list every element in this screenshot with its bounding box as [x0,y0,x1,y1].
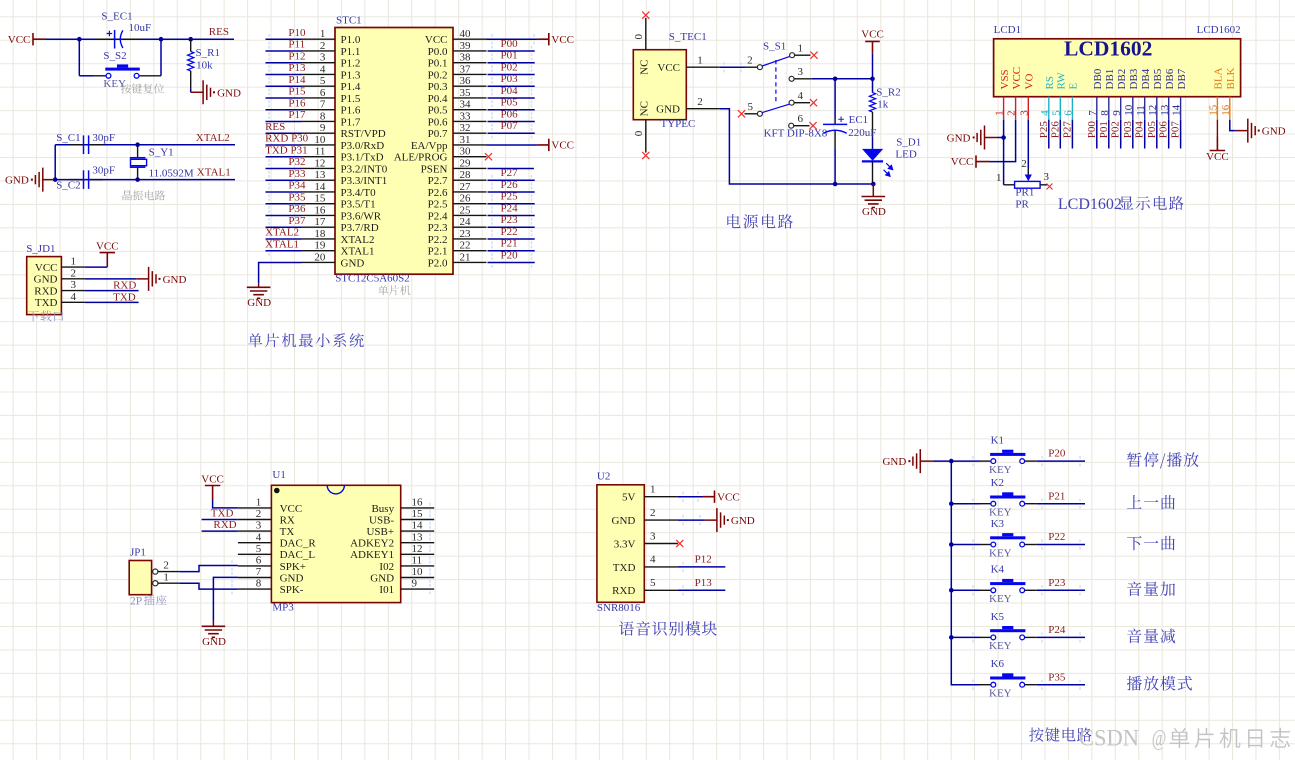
JP1 pin 1 wire to SPK- [158,582,179,584]
svg-text:38: 38 [460,52,472,64]
svg-text:15: 15 [1208,104,1220,116]
power ground (U1) [202,626,226,637]
wire net P26 [488,191,535,193]
S_JD1 pin3 wire RXD [61,290,85,292]
svg-text:P1.6: P1.6 [341,105,361,117]
svg-text:1: 1 [697,55,703,67]
svg-text:P27: P27 [1061,121,1073,139]
svg-text:P0.1: P0.1 [428,58,448,70]
svg-text:E: E [1068,83,1080,90]
svg-text:DB0: DB0 [1092,68,1104,89]
svg-text:10k: 10k [196,59,213,71]
svg-text:P14: P14 [288,74,306,86]
svg-text:P24: P24 [501,202,519,214]
svg-text:XTAL2: XTAL2 [196,132,230,144]
junction (K3) [949,542,954,547]
svg-text:11: 11 [315,146,326,158]
svg-text:P0.7: P0.7 [428,128,448,140]
power port GND (crystal) [35,168,55,192]
svg-text:P1.4: P1.4 [341,81,361,93]
caption 按键复位 [121,84,164,94]
svg-text:DB6: DB6 [1164,68,1176,89]
wire net P16 [266,109,302,111]
STC1 pin 33 (P0.6) [453,120,487,122]
svg-text:1k: 1k [877,99,889,111]
key K5 [951,636,979,638]
svg-text:LED: LED [895,149,916,161]
svg-text:K5: K5 [991,611,1005,623]
svg-text:P2.1: P2.1 [428,246,448,258]
STC1 pin 14 (P3.4/T0) [302,191,336,193]
svg-text:7: 7 [1087,110,1099,116]
svg-text:XTAL1: XTAL1 [265,238,299,250]
svg-text:5: 5 [650,577,656,589]
STC1 pin 10 (P3.0/RxD) [302,144,336,146]
power port VCC (reset circuit) [33,33,46,45]
svg-text:16: 16 [314,204,326,216]
svg-text:LCD1602: LCD1602 [1058,196,1122,213]
wire net P07 [488,132,535,134]
svg-text:P35: P35 [288,191,306,203]
svg-text:30pF: 30pF [92,132,115,144]
power port VCC (U1) [205,486,220,500]
caption 电源电路 [727,214,793,229]
wire net P06 [1168,120,1170,149]
svg-text:P21: P21 [1048,490,1065,502]
crystal S_Y1 11.0592M [137,145,139,158]
svg-text:3: 3 [1018,110,1030,116]
STC1 pin 7 (P1.6) [302,109,336,111]
STC1 pin 15 (P3.5/T1) [302,203,336,205]
svg-text:2: 2 [71,267,77,279]
svg-text:1: 1 [994,110,1006,116]
svg-text:35: 35 [460,87,472,99]
svg-text:16: 16 [412,497,424,509]
resistor S_R1 10k [190,39,192,51]
U1 pin 15 (USB-) [401,519,435,521]
svg-text:EA/Vpp: EA/Vpp [411,140,448,152]
svg-text:P01: P01 [1098,121,1110,138]
STC1 pin 31 (EA/Vpp) [453,144,487,146]
connector JP1 [129,561,151,595]
STC1 pin 29 (PSEN) [453,167,487,169]
wire net P27 [488,179,535,181]
svg-text:3.3V: 3.3V [614,538,636,550]
wire VCC to RES [46,38,234,40]
svg-text:I01: I01 [379,584,394,596]
svg-text:P23: P23 [1048,577,1066,589]
svg-text:P35: P35 [1048,671,1066,683]
svg-text:TXD: TXD [35,297,58,309]
svg-text:P2.6: P2.6 [428,187,448,199]
svg-text:P1.5: P1.5 [341,93,361,105]
wire net P15 [266,97,302,99]
svg-text:P34: P34 [288,180,306,192]
svg-text:30pF: 30pF [92,164,115,176]
svg-text:3: 3 [71,279,77,291]
svg-text:BLA: BLA [1213,67,1225,89]
LCD1 pin 15 (BLA) [1216,97,1218,120]
svg-text:220uF: 220uF [848,127,876,139]
resistor S_R2 1k [872,79,874,93]
U1 pin 7 (GND) [238,577,272,579]
svg-text:RXD: RXD [34,285,57,297]
svg-text:2: 2 [650,507,656,519]
no-connect X (bottom) [642,152,649,159]
wire net P12 [266,62,302,64]
junction [833,182,838,187]
IC LCD1 LCD1602 body [994,39,1241,97]
wire net P35 [266,203,302,205]
capacitor S_C2 30pF [69,179,82,181]
wire net P24 [1037,636,1085,638]
svg-text:32: 32 [460,122,471,134]
S_TEC1 pin 1 wire [686,66,720,68]
no-connect X (top) [642,12,649,19]
U1 pin 11 (I02) [401,565,435,567]
wire net P02 [1120,120,1122,149]
svg-text:S_R2: S_R2 [876,87,900,99]
U1 pin 12 (ADKEY1) [401,553,435,555]
svg-text:SPK+: SPK+ [280,561,306,573]
svg-text:9: 9 [1111,110,1123,116]
svg-text:1: 1 [650,484,656,496]
key S_S2 [78,39,80,76]
svg-text:EC1: EC1 [849,114,869,126]
svg-text:VCC: VCC [8,34,31,46]
wire net P32 [266,167,302,169]
svg-text:P1.1: P1.1 [341,46,361,58]
S_S1 pin 3 [789,76,794,81]
LCD1 pin 1 (VSS) [1003,97,1005,120]
STC1 pin 12 (P3.2/INT0) [302,167,336,169]
svg-text:RES: RES [209,26,229,38]
svg-text:RXD: RXD [113,280,136,292]
svg-text:P03: P03 [1122,121,1134,139]
svg-text:8: 8 [256,578,262,590]
svg-text:2: 2 [747,55,753,67]
svg-text:12: 12 [1147,105,1159,116]
svg-text:GND: GND [612,515,636,527]
S_S1 pin 6 [789,123,794,128]
svg-text:GND: GND [247,297,271,309]
wire net P02 [488,73,535,75]
svg-text:P2.0: P2.0 [428,257,448,269]
svg-text:VCC: VCC [551,140,574,152]
STC1 pin 1 (P1.0) [302,38,336,40]
svg-text:14: 14 [314,181,326,193]
key K1 [951,460,979,462]
wire net P33 [266,179,302,181]
junction [77,37,82,42]
caption 上一曲 [1127,495,1175,510]
connector S_TEC1 TYPEC body [633,50,686,120]
svg-text:K6: K6 [991,658,1005,670]
no-connect X (U2 pin3) [676,540,683,547]
svg-text:6: 6 [1063,110,1075,116]
svg-text:XTAL2: XTAL2 [265,227,299,239]
svg-text:PR: PR [1015,199,1029,211]
wire net P36 [266,214,302,216]
wire net P03 [1132,120,1134,149]
wire net P05 [1156,120,1158,149]
svg-text:P02: P02 [501,61,518,73]
STC1 pin 23 (P2.2) [453,238,487,240]
svg-text:GND: GND [862,206,886,218]
svg-text:P13: P13 [288,62,306,74]
power port GND (U2) [705,508,725,532]
U1 pin 6 (SPK+) [238,565,272,567]
svg-text:P22: P22 [501,226,518,238]
svg-text:P3.3/INT1: P3.3/INT1 [341,175,388,187]
svg-text:S_TEC1: S_TEC1 [669,31,707,43]
STC1 pin 24 (P2.3) [453,226,487,228]
STC1 pin 36 (P0.3) [453,85,487,87]
wire net P01 [488,62,535,64]
svg-text:P32: P32 [288,156,305,168]
STC1 pin 18 (XTAL2) [302,238,336,240]
svg-text:39: 39 [460,40,472,52]
svg-text:JP1: JP1 [130,547,146,559]
key K2 [951,503,979,505]
svg-text:P03: P03 [501,73,519,85]
STC1 pin 9 (RST/VPD) [302,132,336,134]
svg-text:VCC: VCC [951,156,974,168]
svg-text:K4: K4 [991,564,1005,576]
svg-text:6: 6 [256,555,262,567]
svg-text:KEY: KEY [989,507,1012,519]
svg-text:P13: P13 [695,577,713,589]
no-connect X (S_S1 pin 4) [810,99,817,106]
junction [53,177,58,182]
svg-text:TYPEC: TYPEC [661,118,696,130]
svg-text:6: 6 [798,113,804,125]
wire net RES [266,132,302,134]
junction [135,142,140,147]
U1 pin 2 (RX) [238,519,272,521]
svg-text:RXD P30: RXD P30 [265,133,309,145]
svg-text:3: 3 [320,52,326,64]
STC1 pin 28 (P2.7) [453,179,487,181]
svg-text:KEY: KEY [989,593,1012,605]
caption 音量加 [1127,581,1175,596]
svg-text:9: 9 [412,578,418,590]
svg-text:31: 31 [460,134,471,146]
svg-text:P17: P17 [288,109,306,121]
svg-text:P0.2: P0.2 [428,69,448,81]
svg-text:13: 13 [1159,104,1171,116]
svg-text:GND: GND [34,274,58,286]
svg-text:VCC: VCC [96,240,119,252]
svg-text:DAC_L: DAC_L [280,549,316,561]
STC1 pin 34 (P0.5) [453,109,487,111]
svg-text:36: 36 [460,75,472,87]
svg-text:P1.0: P1.0 [341,34,361,46]
svg-text:STC12C5A60S2: STC12C5A60S2 [335,273,410,285]
STC1 pin 25 (P2.4) [453,214,487,216]
wire gnd riser [54,145,56,180]
svg-text:U1: U1 [272,469,285,481]
svg-text:9: 9 [320,122,326,134]
svg-text:P3.2/INT0: P3.2/INT0 [341,163,388,175]
STC1 pin 13 (P3.3/INT1) [302,179,336,181]
svg-text:P36: P36 [288,203,306,215]
U1 pin 14 (USB+) [401,530,435,532]
svg-text:24: 24 [460,216,472,228]
U1 notch [327,485,344,494]
svg-text:34: 34 [460,99,472,111]
STC1 pin 20 (GND) [302,261,336,263]
svg-text:30: 30 [460,146,472,158]
svg-text:12: 12 [314,157,325,169]
STC1 pin 4 (P1.3) [302,73,336,75]
svg-text:GND: GND [1262,126,1286,138]
svg-text:P33: P33 [288,168,306,180]
svg-text:25: 25 [460,204,472,216]
power port VCC (BLA) [1210,137,1225,151]
power port VCC (pin 31) [538,139,549,151]
U1 pin 3 (TX) [238,530,272,532]
svg-text:S_Y1: S_Y1 [149,146,174,158]
STC1 pin 38 (P0.1) [453,62,487,64]
svg-text:P0.5: P0.5 [428,105,448,117]
U2 pin 1 (5V) [644,496,678,498]
wire net P22 [488,238,535,240]
svg-text:GND: GND [280,572,304,584]
wire net P35 [1037,684,1085,686]
wire VCC (pin 31) [487,144,538,146]
power ground (STC1) [247,287,271,298]
U2 pin 5 (RXD) [644,589,678,591]
svg-text:P21: P21 [501,238,518,250]
U2 pin 4 (TXD) [644,566,678,568]
svg-text:VCC: VCC [1011,67,1023,90]
no-connect X (PR1 pin 3) [1047,184,1053,190]
wire VCC to U1 pin1 [213,500,238,508]
svg-text:KEY: KEY [989,640,1012,652]
svg-text:11: 11 [412,555,423,567]
U1 pin 4 (DAC_R) [238,542,272,544]
STC1 pin 35 (P0.4) [453,97,487,99]
wire TXD (U1 pin2) [202,519,238,521]
STC1 pin 27 (P2.6) [453,191,487,193]
svg-text:STC1: STC1 [336,15,362,27]
svg-text:P3.5/T1: P3.5/T1 [341,199,376,211]
svg-text:13: 13 [412,531,424,543]
svg-text:K2: K2 [991,477,1004,489]
svg-text:2: 2 [163,560,169,572]
STC1 pin 6 (P1.5) [302,97,336,99]
svg-text:P2.3: P2.3 [428,222,448,234]
JP1 pin 2 wire to SPK+ [158,571,179,573]
svg-text:P2.7: P2.7 [428,175,448,187]
svg-text:P3.6/WR: P3.6/WR [341,210,382,222]
svg-text:3: 3 [1044,171,1050,183]
svg-text:S_S2: S_S2 [103,50,126,62]
svg-text:P2.4: P2.4 [428,210,448,222]
svg-text:S_JD1: S_JD1 [26,243,55,255]
svg-text:3: 3 [650,530,656,542]
key rail [951,461,979,685]
svg-text:DB4: DB4 [1140,68,1152,89]
svg-text:P0.4: P0.4 [428,93,448,105]
wire pin3 to VCC rail [812,78,873,80]
S_TEC1 pin 2 wire [686,108,720,110]
svg-text:P0.3: P0.3 [428,81,448,93]
svg-text:P2.5: P2.5 [428,199,448,211]
svg-text:P1.3: P1.3 [341,69,361,81]
svg-text:U2: U2 [597,471,610,483]
svg-text:4: 4 [650,554,656,566]
svg-text:2: 2 [1021,158,1027,170]
power ground (power circuit) [862,197,886,208]
svg-text:12: 12 [412,543,423,555]
svg-text:3: 3 [798,66,804,78]
wire net P20 [488,261,535,263]
svg-text:CSDN: CSDN [1079,725,1139,750]
U2 pin 2 (GND) [644,519,678,521]
svg-text:VCC: VCC [551,34,574,46]
LCD1 pin 4 (RS) [1048,97,1050,120]
junction [159,37,164,42]
svg-text:P15: P15 [288,86,306,98]
svg-text:P07: P07 [501,120,519,132]
svg-text:P20: P20 [501,249,519,261]
wire XTAL2 [55,144,235,146]
STC1 pin 5 (P1.4) [302,85,336,87]
svg-text:P23: P23 [501,214,519,226]
caption 播放模式 [1127,676,1192,691]
svg-text:P04: P04 [501,85,519,97]
STC1 pin 2 (P1.1) [302,50,336,52]
svg-text:33: 33 [460,110,472,122]
wire VCC (LCD pin2) [990,120,1016,162]
svg-text:GND: GND [731,515,755,527]
S_TEC1 bottom pin 0 [645,120,647,153]
svg-text:DB7: DB7 [1176,68,1188,89]
wire net P25 [1048,120,1050,149]
wire net P34 [266,191,302,193]
svg-text:21: 21 [460,251,471,263]
svg-text:GND: GND [370,572,394,584]
svg-text:4: 4 [1039,110,1051,116]
wire U2 pin1 to VCC [678,496,703,498]
svg-text:8: 8 [1099,110,1111,116]
svg-text:28: 28 [460,169,472,181]
svg-text:VCC: VCC [717,491,740,503]
svg-text:NC: NC [639,101,651,116]
svg-text:1: 1 [163,572,169,584]
svg-text:GND: GND [947,133,971,145]
svg-text:P2.2: P2.2 [428,234,448,246]
STC1 pin 3 (P1.2) [302,62,336,64]
LCD1 pin 8 (DB1) [1108,97,1110,120]
LCD1 pin 9 (DB2) [1120,97,1122,120]
svg-text:P25: P25 [501,191,519,203]
svg-text:K1: K1 [991,435,1004,447]
svg-text:37: 37 [460,63,472,75]
svg-text:P37: P37 [288,215,306,227]
svg-text:P26: P26 [1049,121,1061,139]
svg-text:PR1: PR1 [1015,186,1034,198]
svg-text:VCC: VCC [861,28,884,40]
junction (K2) [949,501,954,506]
svg-text:RX: RX [280,514,295,526]
junction [188,37,193,42]
capacitor S_C1 30pF [69,144,82,146]
svg-text:P10: P10 [288,27,306,39]
svg-text:P06: P06 [501,108,519,120]
